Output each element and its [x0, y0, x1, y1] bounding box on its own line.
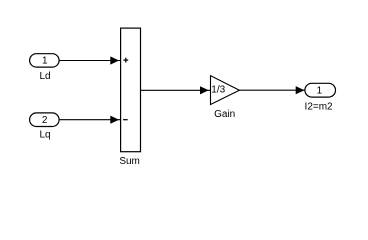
gain triangle	[211, 76, 240, 105]
outport 1	[305, 83, 336, 97]
Sum block	[121, 28, 141, 152]
arrowhead into Sum -	[110, 116, 119, 124]
wire Lq to Sum	[59, 119, 120, 121]
svg-text:Lq: Lq	[39, 130, 50, 141]
wire Sum to Gain	[141, 89, 211, 91]
wire Gain to outport	[239, 89, 305, 91]
inport 1	[30, 54, 59, 67]
svg-text:1: 1	[42, 56, 48, 67]
minus sign	[123, 119, 128, 121]
plus sign	[123, 58, 128, 63]
svg-text:1: 1	[317, 85, 323, 96]
svg-text:I2=m2: I2=m2	[305, 102, 334, 113]
svg-text:Sum: Sum	[119, 156, 140, 167]
svg-text:1/3: 1/3	[211, 85, 225, 96]
svg-text:Gain: Gain	[214, 109, 235, 120]
svg-text:Ld: Ld	[39, 71, 50, 82]
arrowhead into outport	[296, 86, 305, 94]
arrowhead into Sum +	[110, 56, 119, 64]
svg-text:2: 2	[42, 115, 48, 126]
arrowhead into Gain	[200, 86, 209, 94]
wire Ld to Sum	[59, 60, 120, 62]
inport 2	[30, 113, 59, 127]
